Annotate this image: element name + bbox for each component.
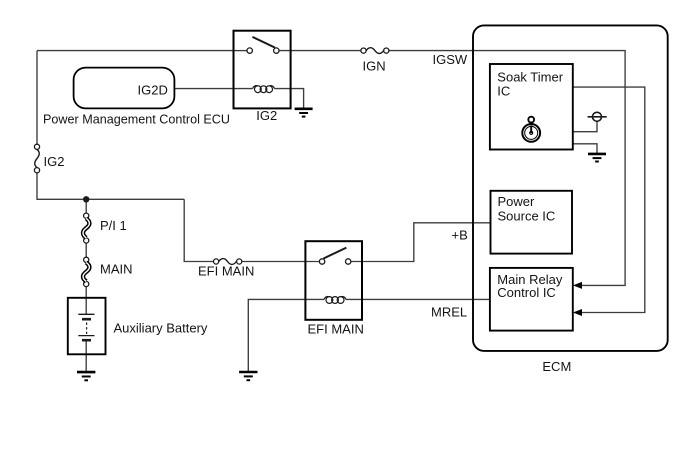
relay EFI MAIN coil [324,296,346,303]
svg-text:P/I 1: P/I 1 [100,218,127,233]
arrowhead into Main Relay Control IC from Soak Timer [573,309,582,316]
svg-text:Power Management Control ECU: Power Management Control ECU [43,111,230,126]
wire MREL relay coil to Main Relay Control IC [362,298,490,300]
svg-text:IG2: IG2 [256,108,277,123]
relay IG2 box [234,31,291,109]
wire junction down to P/I 1 fuse [85,199,87,213]
svg-text:IGN: IGN [363,59,386,74]
wire IG2 fuse to junction row [37,173,184,200]
terminal circle at Soak Timer output [588,112,607,121]
svg-text:Power: Power [498,194,536,209]
battery cell symbol [78,314,94,340]
wire relay switch to +B Power Source IC [351,223,491,262]
wire between P/I 1 and MAIN fuses [85,243,87,257]
svg-text:ECM: ECM [542,359,571,374]
svg-text:MREL: MREL [431,304,467,319]
relay EFI MAIN box [305,241,362,320]
svg-text:Control IC: Control IC [497,285,556,300]
svg-text:Auxiliary Battery: Auxiliary Battery [114,320,208,335]
svg-text:IGSW: IGSW [433,52,468,67]
fusible link MAIN [83,257,89,286]
svg-text:IC: IC [497,83,510,98]
svg-text:+B: +B [452,227,468,242]
ECM box [473,25,668,351]
wire riser to EFI MAIN fuse [184,199,213,261]
wire IG2 relay switch right lead to IGN fuse [279,50,361,52]
wire EFI MAIN relay coil lead inside box right [346,298,362,300]
svg-text:EFI MAIN: EFI MAIN [308,321,364,336]
svg-text:EFI MAIN: EFI MAIN [198,264,254,279]
Soak Timer IC box [490,64,573,150]
wire IG2 relay switch left lead [234,50,248,52]
wire Soak Timer IC to terminal circle [573,121,597,131]
ground below battery [77,372,95,380]
wire top-left horizontal B+ feed to IG2 relay switch [37,50,234,52]
box IG2D Power Management Control ECU [74,68,175,109]
svg-text:IG2: IG2 [44,154,65,169]
wire EFI MAIN relay coil left to ground [248,299,305,372]
ground right of IG2 relay [295,109,313,117]
wire IGN fuse to ECM IGSW then down to Main Relay Control IC arrow [389,51,625,286]
svg-text:Source IC: Source IC [498,208,556,223]
wire MAIN fuse to battery [85,287,87,314]
fusible link P/I 1 [83,213,89,243]
wire battery negative to ground [85,341,87,372]
fuse IG2 (vertical) [34,144,39,173]
node junction dot on battery feed [83,196,89,202]
svg-text:MAIN: MAIN [100,262,133,277]
fuse EFI MAIN [214,259,242,265]
relay IG2 coil [253,86,275,93]
stopwatch icon [522,117,540,142]
wire EFI MAIN relay coil lead inside box left [305,298,324,300]
wire left vertical down to IG2 fuse [36,51,38,145]
wire EFI MAIN fuse to relay switch [242,261,320,263]
relay EFI MAIN switch [319,248,351,265]
battery box Auxiliary Battery [68,298,106,355]
Power Source IC box [491,191,573,254]
Main Relay Control IC box [490,268,573,331]
wire Soak Timer IC output to Main Relay Control IC arrow [573,87,645,312]
wire IG2 relay coil right to ground [274,89,303,108]
wire IG2D output to IG2 relay coil [174,88,252,90]
ground below Soak Timer stub [588,154,606,162]
fuse IGN [361,48,389,54]
ground below EFI MAIN coil wire [239,372,257,380]
wire Soak Timer IC to ground [573,144,597,154]
svg-text:IG2D: IG2D [138,83,168,98]
arrowhead into Main Relay Control IC from IGSW [573,282,582,289]
relay IG2 switch [247,37,279,53]
